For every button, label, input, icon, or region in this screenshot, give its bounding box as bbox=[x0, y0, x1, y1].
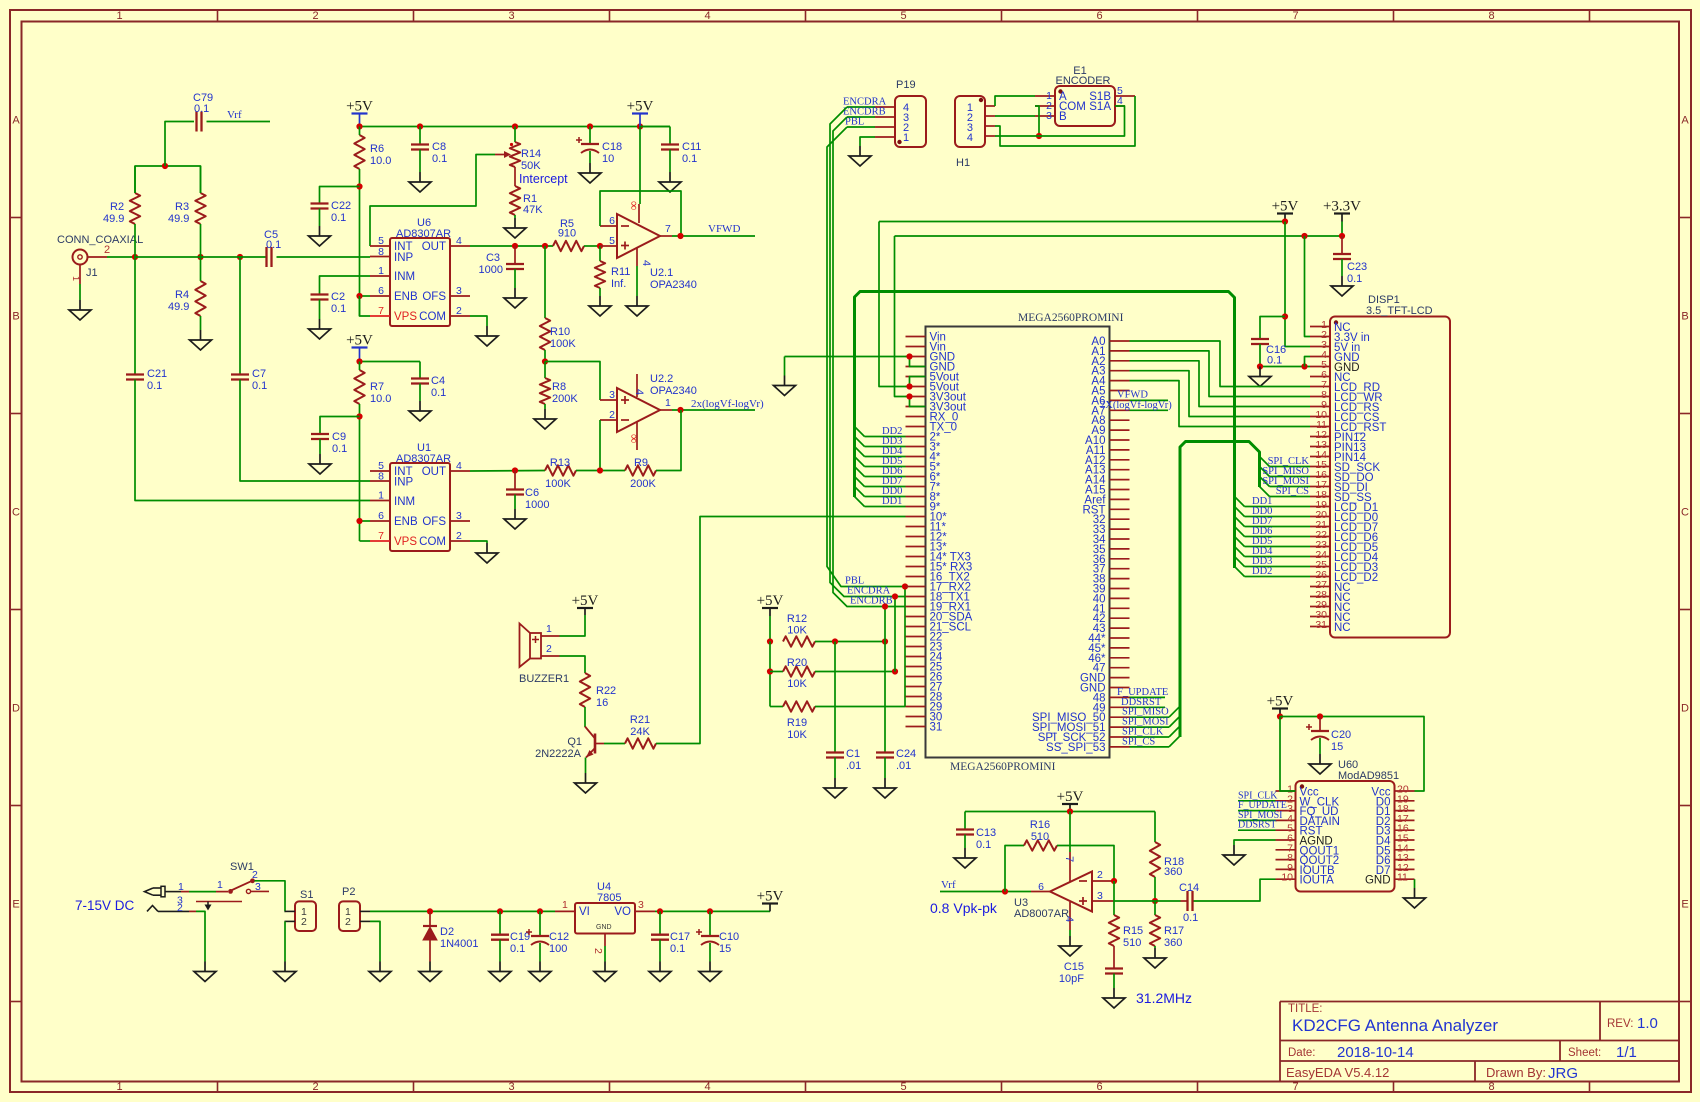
wire U1 OUT to R13 bbox=[470, 470, 545, 473]
svg-text:D: D bbox=[1681, 703, 1689, 715]
ground bbox=[1319, 754, 1321, 764]
encoder E1 bbox=[1035, 65, 1135, 126]
svg-text:KD2CFG Antenna Analyzer: KD2CFG Antenna Analyzer bbox=[1292, 1016, 1498, 1035]
wire IOUTA to C14 net bbox=[1193, 879, 1276, 901]
node R10/R8 bbox=[542, 358, 548, 364]
net label DD2 (DISP1 pin 26) bbox=[1235, 566, 1311, 577]
node COM/H1.4 bbox=[1036, 133, 1042, 139]
svg-text:1: 1 bbox=[665, 397, 671, 409]
net label DD3 (MEGA pin 3*) bbox=[855, 436, 906, 447]
svg-text:DD1: DD1 bbox=[882, 496, 902, 507]
capacitor C10 15 polarized bbox=[696, 911, 739, 955]
node R7/C9 bbox=[356, 413, 362, 419]
svg-text:10: 10 bbox=[1281, 872, 1293, 884]
wire U2.1 power +5V bbox=[639, 127, 641, 205]
svg-text:R11: R11 bbox=[611, 266, 630, 278]
wire C24 to ground bbox=[884, 758, 886, 779]
wire H1.4 to S1A bbox=[995, 106, 1125, 136]
ground bbox=[429, 962, 431, 972]
svg-text:1: 1 bbox=[217, 879, 223, 891]
resistor R19 10K bbox=[783, 701, 815, 741]
svg-text:OFS: OFS bbox=[422, 291, 446, 303]
svg-text:C10: C10 bbox=[719, 931, 739, 943]
resistor R22 16 bbox=[580, 673, 616, 709]
svg-text:C8: C8 bbox=[432, 141, 446, 153]
wire R6 down to VPS bbox=[359, 169, 361, 316]
wire U3 pin4 to ground bbox=[1069, 930, 1071, 936]
op-amp U6 AD8307AR box bbox=[390, 217, 451, 326]
wire R18 to node bbox=[1154, 877, 1156, 901]
ground bbox=[486, 543, 488, 553]
svg-text:R17: R17 bbox=[1164, 925, 1184, 937]
wire buzzer pin2 to R22 bbox=[560, 656, 586, 673]
svg-text:P19: P19 bbox=[896, 79, 916, 91]
svg-text:6: 6 bbox=[378, 285, 384, 297]
svg-text:8: 8 bbox=[1488, 1081, 1494, 1093]
svg-text:4: 4 bbox=[640, 260, 652, 266]
svg-text:+5V: +5V bbox=[1267, 694, 1294, 710]
svg-text:200K: 200K bbox=[552, 393, 578, 405]
svg-text:R7: R7 bbox=[370, 381, 384, 393]
connector P19 bbox=[875, 79, 926, 147]
svg-text:5: 5 bbox=[900, 10, 906, 22]
capacitor C2 0.1 bbox=[311, 291, 347, 315]
svg-text:A: A bbox=[1681, 115, 1689, 127]
resistor R4 49.9 bbox=[168, 257, 206, 330]
wire bus ENCDRA P19 to MEGA bbox=[830, 107, 906, 597]
wire R14 wiper to U6 INT bbox=[370, 155, 495, 247]
ground bbox=[319, 454, 321, 464]
wire VPS corner bbox=[360, 296, 371, 316]
wire MEGA GND pins to ground bbox=[785, 357, 926, 376]
svg-text:E: E bbox=[1681, 899, 1688, 911]
wire R12 to C1/C24 node bbox=[815, 641, 885, 643]
ground bbox=[659, 962, 661, 972]
wire bus ENCDRB P19 to MEGA bbox=[833, 117, 906, 607]
svg-text:3: 3 bbox=[508, 10, 514, 22]
svg-text:8: 8 bbox=[1488, 10, 1494, 22]
svg-text:1000: 1000 bbox=[479, 264, 503, 276]
svg-text:C21: C21 bbox=[147, 368, 167, 380]
wire U2.1 bottom to ground bbox=[636, 266, 638, 296]
wire divider to U2.2 pin3 bbox=[545, 362, 600, 401]
svg-text:1: 1 bbox=[71, 276, 81, 281]
svg-text:R10: R10 bbox=[550, 326, 570, 338]
svg-text:0.1: 0.1 bbox=[1267, 355, 1282, 367]
ground bbox=[419, 401, 421, 411]
svg-text:INM: INM bbox=[394, 496, 415, 508]
ground bbox=[79, 300, 81, 310]
wire P2 pin1 to U4 VI bbox=[370, 910, 555, 912]
net label DDSRST (U60) bbox=[1238, 820, 1276, 831]
net label ENCDRB (P19) bbox=[843, 107, 886, 118]
wire to C79 bbox=[165, 122, 194, 167]
svg-text:GND: GND bbox=[596, 924, 612, 931]
svg-text:0.1: 0.1 bbox=[252, 380, 267, 392]
svg-text:1: 1 bbox=[116, 10, 122, 22]
svg-text:R22: R22 bbox=[596, 685, 616, 697]
svg-text:1: 1 bbox=[116, 1081, 122, 1093]
capacitor C21 0.1 bbox=[126, 257, 167, 392]
svg-text:4: 4 bbox=[633, 389, 645, 395]
svg-text:10.0: 10.0 bbox=[370, 155, 391, 167]
net label DDSRST (MEGA pin 49) bbox=[1121, 697, 1165, 708]
wire C15 to ground bbox=[1113, 974, 1115, 989]
U6 pin 7 VPS bbox=[370, 305, 417, 323]
svg-text:2: 2 bbox=[456, 530, 462, 542]
title block bbox=[1280, 1002, 1679, 1083]
net label DD2 (MEGA pin 2*) bbox=[855, 426, 906, 437]
wire U4 VO to +5V bbox=[655, 910, 770, 912]
wire S1 pin2 to ground bbox=[284, 921, 286, 961]
capacitor C1 .01 bbox=[826, 642, 861, 773]
net label Vrf bbox=[207, 109, 271, 122]
svg-text:1: 1 bbox=[378, 265, 384, 277]
wire +5V down to DISP1 5Vin bbox=[1285, 222, 1310, 347]
ground bbox=[604, 962, 606, 972]
svg-text:8: 8 bbox=[378, 246, 384, 258]
svg-text:GND: GND bbox=[1365, 875, 1391, 887]
net label DD1 (MEGA pin 9*) bbox=[855, 496, 906, 507]
svg-text:INP: INP bbox=[394, 477, 414, 489]
svg-text:4: 4 bbox=[456, 235, 462, 247]
net label SPI_CLK (U60) bbox=[1238, 790, 1278, 801]
net label Vrf (U3 out) bbox=[940, 879, 1031, 892]
U6 pin 8 INP bbox=[370, 246, 414, 264]
wire E1 COM down bbox=[1035, 106, 1039, 136]
net label SPI_MOSI (DISP1 pin 17) bbox=[1260, 476, 1311, 487]
net label SPI_MISO (MEGA pin 50) bbox=[1122, 706, 1180, 718]
svg-text:100K: 100K bbox=[545, 478, 571, 490]
svg-text:REV:: REV: bbox=[1607, 1018, 1633, 1030]
capacitor C18 10 polarized bbox=[576, 127, 622, 166]
node C16 tap bbox=[1282, 313, 1288, 319]
capacitor C17 0.1 bbox=[651, 911, 690, 955]
capacitor C11 0.1 bbox=[640, 127, 701, 166]
svg-text:Vrf: Vrf bbox=[941, 879, 956, 891]
node C16 gnd bbox=[1257, 363, 1263, 369]
ground bbox=[585, 773, 587, 783]
svg-text:C2: C2 bbox=[331, 291, 345, 303]
svg-text:R13: R13 bbox=[550, 457, 570, 469]
svg-text:7: 7 bbox=[665, 223, 671, 235]
node 3.3V to DISP bbox=[1301, 233, 1307, 239]
svg-text:3: 3 bbox=[456, 510, 462, 522]
capacitor C20 15 polarized bbox=[1306, 717, 1351, 754]
svg-text:0.1: 0.1 bbox=[332, 443, 347, 455]
op-amp U2.1 OPA2340 bbox=[600, 201, 697, 291]
svg-text:1.0: 1.0 bbox=[1637, 1015, 1658, 1032]
svg-text:ENB: ENB bbox=[394, 291, 418, 303]
svg-text:C17: C17 bbox=[670, 931, 690, 943]
ground bbox=[859, 146, 861, 156]
svg-text:E: E bbox=[12, 899, 19, 911]
resistor R7 10.0 bbox=[354, 362, 391, 406]
svg-text:INM: INM bbox=[394, 271, 415, 283]
svg-text:VPS: VPS bbox=[394, 536, 417, 548]
ground bbox=[319, 226, 321, 236]
wire U6 ENB to +5V rail bbox=[360, 295, 371, 297]
buzzer BUZZER1 bbox=[519, 623, 569, 685]
svg-text:MEGA2560PROMINI: MEGA2560PROMINI bbox=[950, 761, 1056, 773]
node ENB U1 bbox=[356, 518, 362, 524]
wire U4 GND to ground bbox=[604, 946, 606, 962]
net label DD6 (DISP1 pin 22) bbox=[1235, 526, 1311, 537]
net label 2X(logVf-logVr) (A7) bbox=[1100, 400, 1172, 411]
svg-text:2: 2 bbox=[252, 869, 258, 881]
U6 pin 4 OUT bbox=[422, 235, 470, 253]
node output bbox=[677, 233, 683, 239]
svg-text:+5V: +5V bbox=[1272, 199, 1299, 215]
ground bbox=[784, 376, 786, 386]
wire R5 to U2.1 pin5 bbox=[584, 245, 600, 247]
svg-text:100K: 100K bbox=[550, 338, 576, 350]
capacitor C12 100 polarized bbox=[526, 911, 569, 955]
svg-text:5: 5 bbox=[609, 235, 615, 247]
svg-text:2018-10-14: 2018-10-14 bbox=[1337, 1044, 1414, 1061]
connector DC jack bbox=[145, 881, 243, 914]
svg-text:2: 2 bbox=[456, 305, 462, 317]
U60 right pins bbox=[1365, 784, 1415, 887]
svg-text:0.1: 0.1 bbox=[976, 839, 991, 851]
diode D2 1N4001 bbox=[423, 911, 479, 961]
svg-text:R21: R21 bbox=[630, 714, 650, 726]
wire C10 to ground bbox=[709, 943, 711, 962]
node input rail bbox=[132, 254, 138, 260]
node R20 riser bbox=[892, 668, 898, 674]
wire 3V3out feed bbox=[895, 236, 1343, 407]
net label DD7 (DISP1 pin 21) bbox=[1235, 516, 1311, 527]
U6 pin 3 OFS bbox=[422, 285, 470, 303]
svg-text:C24: C24 bbox=[896, 748, 916, 760]
node C17 bbox=[657, 908, 663, 914]
node C1 bbox=[832, 638, 838, 644]
svg-text:2: 2 bbox=[104, 244, 110, 256]
svg-text:4: 4 bbox=[967, 132, 973, 144]
node R13/R9/pin2 bbox=[597, 467, 603, 473]
transistor Q1 2N2222A bbox=[535, 727, 604, 761]
U60 left pins bbox=[1276, 784, 1340, 887]
wire bus PBL P19 to MEGA bbox=[827, 127, 906, 587]
svg-text:0.1: 0.1 bbox=[431, 387, 446, 399]
svg-text:C12: C12 bbox=[549, 931, 569, 943]
wire riser R12 to pin 19_RX1 bbox=[884, 607, 886, 642]
svg-text:C18: C18 bbox=[602, 141, 622, 153]
wire P2 pin2 to ground bbox=[370, 921, 380, 961]
svg-text:SPI_CS: SPI_CS bbox=[1276, 486, 1309, 497]
node D2 bbox=[427, 908, 433, 914]
svg-text:PBL: PBL bbox=[845, 117, 864, 128]
ground bbox=[1154, 948, 1156, 958]
svg-text:2: 2 bbox=[345, 916, 351, 928]
node pin2/R15 bbox=[1111, 878, 1117, 884]
ground bbox=[599, 296, 601, 306]
node +5V U60 bbox=[1277, 713, 1283, 719]
svg-text:C7: C7 bbox=[252, 368, 266, 380]
ground bbox=[499, 962, 501, 972]
svg-text:360: 360 bbox=[1164, 866, 1182, 878]
net label SPI_MOSI (U60) bbox=[1238, 810, 1282, 821]
wire A4 to LCD_RST staircase bbox=[1130, 381, 1311, 427]
svg-text:1: 1 bbox=[178, 881, 184, 893]
wire C5 to U6 INP bbox=[277, 256, 371, 258]
svg-text:10K: 10K bbox=[787, 678, 807, 690]
svg-text:0.1: 0.1 bbox=[194, 103, 209, 115]
wire C12 to ground bbox=[539, 943, 541, 962]
node GND pair bbox=[906, 353, 912, 359]
wire rail to R19 bbox=[770, 706, 783, 708]
svg-text:4: 4 bbox=[456, 460, 462, 472]
net label DD4 (MEGA pin 4*) bbox=[855, 446, 906, 457]
svg-text:31: 31 bbox=[930, 722, 943, 734]
svg-text:IOUTA: IOUTA bbox=[1300, 875, 1335, 887]
wire R2/R3 top tie bbox=[135, 166, 201, 193]
svg-text:A: A bbox=[12, 115, 20, 127]
svg-text:R3: R3 bbox=[175, 201, 189, 213]
svg-text:31: 31 bbox=[1315, 619, 1327, 631]
svg-text:10: 10 bbox=[602, 153, 614, 165]
net label SPI_CLK (MEGA pin 52) bbox=[1122, 726, 1180, 738]
svg-text:0.1: 0.1 bbox=[331, 303, 346, 315]
net label PBL (P19) bbox=[845, 117, 875, 128]
ground bbox=[884, 778, 886, 788]
svg-text:R16: R16 bbox=[1030, 819, 1050, 831]
capacitor C24 .01 bbox=[876, 642, 916, 773]
wire U3 power bbox=[1069, 812, 1071, 853]
svg-text:B: B bbox=[12, 311, 19, 323]
svg-text:2: 2 bbox=[546, 643, 552, 655]
capacitor C5 0.1 bbox=[264, 229, 281, 267]
svg-text:AD8307AR: AD8307AR bbox=[396, 453, 451, 465]
net label SPI_MISO (DISP1 pin 16) bbox=[1260, 466, 1311, 477]
svg-text:R8: R8 bbox=[552, 381, 566, 393]
svg-text:3.5_TFT-LCD: 3.5_TFT-LCD bbox=[1366, 305, 1433, 317]
net label DD0 (MEGA pin 8*) bbox=[855, 486, 906, 497]
svg-text:4: 4 bbox=[704, 1081, 710, 1093]
ground bbox=[284, 962, 286, 972]
ground bbox=[1259, 367, 1261, 377]
node +5V U3 bbox=[1067, 808, 1073, 814]
svg-text:47K: 47K bbox=[523, 204, 543, 216]
svg-text:3: 3 bbox=[609, 389, 615, 401]
svg-text:2: 2 bbox=[177, 902, 183, 914]
svg-text:OUT: OUT bbox=[422, 241, 446, 253]
wire to C22 bbox=[320, 187, 360, 204]
svg-text:0.1: 0.1 bbox=[266, 239, 281, 251]
svg-text:1: 1 bbox=[378, 490, 384, 502]
node C20 bbox=[1317, 713, 1323, 719]
ground bbox=[1069, 936, 1071, 946]
node ENB bbox=[356, 293, 362, 299]
ground bbox=[1233, 845, 1235, 855]
wire U3 pin3 to C14 node bbox=[1114, 900, 1181, 902]
svg-text:49.9: 49.9 bbox=[103, 213, 124, 225]
svg-text:Sheet:: Sheet: bbox=[1568, 1047, 1601, 1059]
svg-text:910: 910 bbox=[558, 228, 576, 240]
svg-text:JRG: JRG bbox=[1548, 1065, 1578, 1082]
node +3.3V/C23 bbox=[1339, 233, 1345, 239]
node R2R3 bbox=[162, 163, 168, 169]
svg-text:VPS: VPS bbox=[394, 311, 417, 323]
U1 pin 1 INM bbox=[370, 490, 415, 509]
svg-text:Date:: Date: bbox=[1288, 1047, 1316, 1059]
wire +5V to U60 Vcc1 bbox=[1280, 717, 1296, 792]
net label ENCDRA (P19) bbox=[843, 97, 887, 108]
svg-text:MEGA2560PROMINI: MEGA2560PROMINI bbox=[1018, 312, 1124, 324]
wire C16 to DISP1 GND pins bbox=[1259, 344, 1261, 367]
wire R1 to ground bbox=[514, 215, 516, 218]
svg-text:NC: NC bbox=[1334, 622, 1351, 634]
svg-text:360: 360 bbox=[1164, 937, 1182, 949]
ground bbox=[636, 296, 638, 306]
svg-text:3: 3 bbox=[1097, 890, 1103, 902]
wire U6 COM to ground bbox=[470, 316, 487, 326]
node C10 bbox=[707, 908, 713, 914]
resistor R13 100K bbox=[545, 457, 576, 490]
wire R9 to output node bbox=[656, 410, 681, 471]
svg-text:Q1: Q1 bbox=[567, 736, 582, 748]
svg-text:C4: C4 bbox=[431, 375, 445, 387]
wire 3.3V down to DISP1 pin2 bbox=[1305, 236, 1311, 337]
svg-text:3: 3 bbox=[508, 1081, 514, 1093]
wire AGND to ground bbox=[1234, 840, 1276, 845]
resistor R3 49.9 bbox=[168, 166, 206, 257]
capacitor C8 0.1 bbox=[411, 127, 447, 166]
svg-text:R20: R20 bbox=[787, 657, 807, 669]
resistor R16 510 bbox=[1005, 819, 1114, 892]
svg-text:1: 1 bbox=[546, 623, 552, 635]
wire DISP pin4 GND join bbox=[1305, 357, 1311, 367]
ground bbox=[1414, 888, 1416, 898]
svg-text:31.2MHz: 31.2MHz bbox=[1136, 990, 1192, 1006]
connector P2 bbox=[339, 886, 370, 931]
svg-text:TITLE:: TITLE: bbox=[1288, 1003, 1323, 1015]
U1 pin 5 INT bbox=[370, 460, 413, 478]
svg-text:2X(logVf-logVr): 2X(logVf-logVr) bbox=[1100, 400, 1172, 411]
svg-text:+5V: +5V bbox=[1057, 789, 1084, 805]
wire C20 to ground bbox=[1319, 738, 1321, 754]
wire rail to R20 bbox=[770, 671, 783, 673]
wire U1 COM to ground bbox=[470, 541, 487, 543]
capacitor C15 10pF bbox=[1059, 946, 1123, 985]
svg-text:D: D bbox=[12, 703, 20, 715]
svg-text:0.8 Vpk-pk: 0.8 Vpk-pk bbox=[930, 900, 998, 916]
svg-text:3: 3 bbox=[638, 899, 644, 911]
svg-text:C14: C14 bbox=[1179, 882, 1199, 894]
ground bbox=[379, 962, 381, 972]
wire jack sleeve to ground bbox=[196, 911, 205, 961]
node OUT/C6 bbox=[512, 467, 518, 473]
U6 pin 6 ENB bbox=[370, 285, 418, 303]
net label DD3 (DISP1 pin 25) bbox=[1235, 556, 1311, 567]
svg-text:S1A: S1A bbox=[1089, 101, 1111, 113]
svg-text:100: 100 bbox=[549, 943, 567, 955]
wire A1 to LCD_WR staircase bbox=[1130, 351, 1311, 397]
capacitor C13 0.1 bbox=[956, 812, 996, 852]
svg-text:2: 2 bbox=[312, 1081, 318, 1093]
bus LCD data DD0-DD7 bbox=[855, 292, 1235, 569]
ground bbox=[514, 218, 516, 228]
net label SPI_CS (MEGA pin 53) bbox=[1122, 736, 1180, 748]
node rail R20 bbox=[767, 668, 773, 674]
wire R17 to ground bbox=[1154, 946, 1156, 948]
svg-text:7-15V DC: 7-15V DC bbox=[75, 898, 135, 913]
svg-text:0.1: 0.1 bbox=[510, 943, 525, 955]
svg-text:0.1: 0.1 bbox=[1347, 273, 1362, 285]
wire +5V U3 rail bbox=[965, 811, 1155, 813]
wire R13 to node bbox=[576, 470, 625, 472]
wire +5V to C4 bbox=[360, 361, 421, 363]
